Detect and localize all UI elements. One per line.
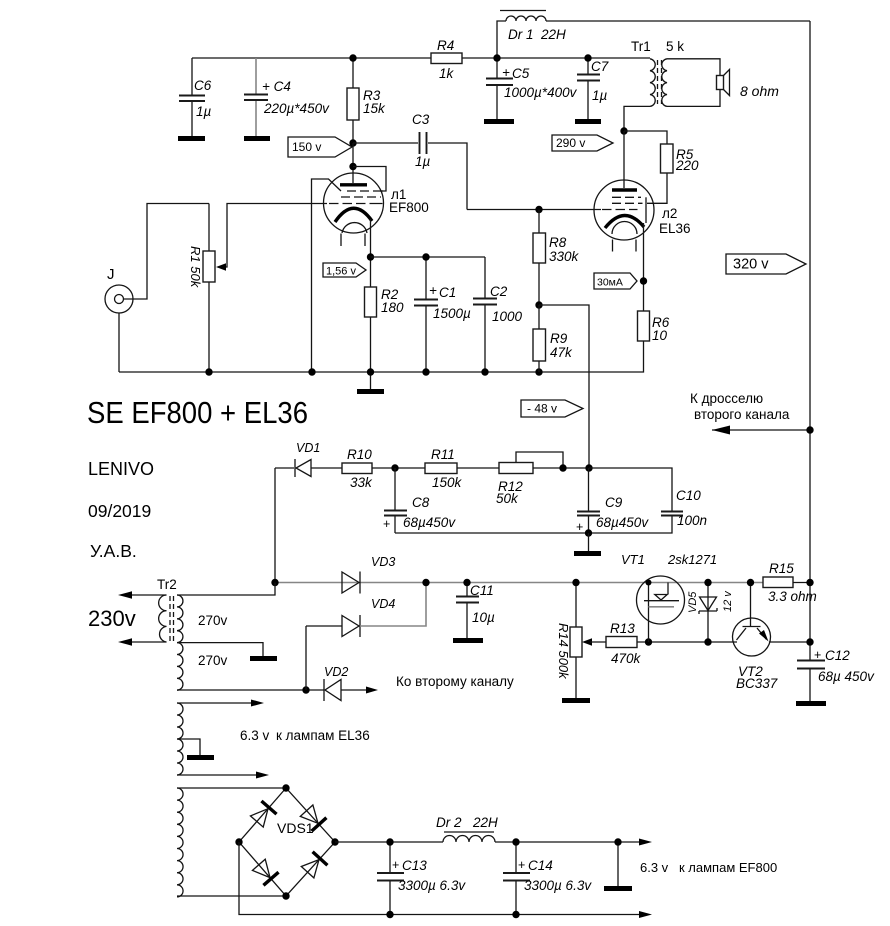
svg-text:VD4: VD4 [371, 597, 395, 611]
transformer Tr2 [118, 577, 324, 690]
svg-text:1µ: 1µ [196, 104, 212, 119]
svg-text:C9: C9 [605, 495, 623, 510]
svg-text:10µ: 10µ [472, 610, 495, 625]
svg-text:второго канала: второго канала [694, 407, 790, 422]
svg-text:C7: C7 [591, 59, 609, 74]
svg-text:Tr1: Tr1 [631, 39, 651, 54]
rail junction nodes [205, 368, 212, 375]
heater pins EF800 [341, 234, 365, 247]
flag 1,56 v [323, 263, 366, 278]
transistor VT2 BC337 [733, 583, 811, 692]
diode VD3 [342, 555, 395, 594]
svg-text:+: + [576, 520, 583, 534]
node VT1 gate [645, 638, 652, 645]
jack J [105, 204, 209, 373]
resistor R10 [342, 447, 425, 490]
screen hook EF800 [353, 167, 386, 192]
node R8 R9 [535, 301, 542, 308]
node cathode EF800 [367, 253, 374, 260]
capacitor C11 [453, 583, 495, 644]
svg-text:SE EF800 + EL36: SE EF800 + EL36 [87, 395, 308, 430]
svg-text:290 v: 290 v [556, 136, 585, 150]
svg-text:BC337: BC337 [736, 676, 778, 691]
svg-text:л2: л2 [662, 206, 677, 221]
suppressor lead EF800 to ground [312, 179, 342, 372]
svg-text:VT1: VT1 [621, 552, 645, 567]
svg-text:220: 220 [675, 158, 699, 173]
svg-text:C10: C10 [676, 488, 701, 503]
svg-text:Ко второму каналу: Ко второму каналу [396, 674, 514, 689]
svg-text:09/2019: 09/2019 [88, 501, 151, 521]
ground 6.3v EF800 [617, 842, 619, 886]
arrow to other channel choke [690, 391, 814, 435]
svg-text:68µ450v: 68µ450v [403, 515, 456, 530]
capacitor C1 [414, 257, 471, 372]
svg-text:1µ: 1µ [415, 154, 431, 169]
svg-text:C14: C14 [528, 858, 553, 873]
node C7 [584, 54, 591, 61]
svg-text:220µ*450v: 220µ*450v [263, 101, 330, 116]
node Tr1 bottom [620, 127, 627, 134]
resistor R13 [590, 621, 737, 666]
svg-text:R9: R9 [550, 331, 568, 346]
svg-text:VDS1: VDS1 [277, 820, 314, 836]
svg-text:К дросселю: К дросселю [690, 391, 763, 406]
grid g2 dashes EF800 [341, 196, 381, 198]
node C5 [493, 54, 500, 61]
capacitor C7 [575, 58, 609, 124]
resistor R2 [365, 287, 405, 372]
svg-text:Tr2: Tr2 [157, 577, 177, 592]
wire anode lead EF800 [352, 143, 354, 183]
capacitor C10 [661, 488, 707, 528]
svg-text:10: 10 [652, 328, 668, 343]
wire raw HT rail y=582.5 [275, 582, 763, 584]
wire DC- 6.3v [239, 842, 639, 915]
potentiometer R14 [556, 583, 592, 704]
svg-text:У.А.В.: У.А.В. [90, 541, 137, 561]
svg-text:C3: C3 [412, 112, 430, 127]
potentiometer R1 [188, 204, 327, 373]
svg-text:1000µ*400v: 1000µ*400v [504, 85, 578, 100]
node VD4 anode riser [302, 686, 309, 693]
svg-text:270v: 270v [198, 653, 228, 668]
zener VD5 [687, 583, 734, 643]
heater pins EL36 [613, 240, 637, 252]
node anode EF800 [349, 163, 356, 170]
capacitor C5 [484, 58, 578, 124]
svg-text:+: + [383, 517, 390, 531]
HV top lead [177, 583, 275, 596]
ground symbol main [370, 372, 372, 389]
heater winding 6.3v EF800 [177, 788, 183, 897]
svg-text:150 v: 150 v [292, 140, 321, 154]
resistor R8 [533, 210, 580, 306]
svg-text:EF800: EF800 [389, 200, 429, 215]
svg-text:VD3: VD3 [371, 555, 395, 569]
grid g1 dashes EF800 [329, 203, 383, 205]
svg-text:150k: 150k [432, 475, 463, 490]
beam plate lead EL36 [645, 197, 647, 223]
svg-text:C11: C11 [470, 583, 494, 598]
potentiometer R12 [496, 452, 589, 506]
svg-text:EL36: EL36 [659, 221, 691, 236]
flag -48 v [521, 400, 583, 417]
svg-text:6.3 v: 6.3 v [640, 860, 669, 875]
resistor R11 [425, 447, 499, 490]
svg-text:LENIVO: LENIVO [88, 459, 154, 479]
node grid EL36 [535, 206, 542, 213]
svg-text:VD2: VD2 [324, 665, 348, 679]
svg-text:68µ 450v: 68µ 450v [818, 669, 875, 684]
wire cathode EL36 [643, 223, 645, 311]
grid dashes EL36 row2 [612, 202, 643, 204]
node C8 top [391, 464, 398, 471]
svg-text:1µ: 1µ [592, 88, 608, 103]
svg-text:50k: 50k [496, 491, 519, 506]
svg-text:47k: 47k [550, 345, 573, 360]
svg-text:R13: R13 [610, 621, 635, 636]
inductor Dr1 [497, 11, 810, 59]
svg-text:R10: R10 [347, 447, 372, 462]
ground C9 [588, 533, 590, 551]
cathode arc EL36 [605, 215, 644, 228]
wire DC+ 6.3v [335, 841, 639, 843]
cathode dome EF800 [342, 223, 367, 233]
svg-text:100n: 100n [677, 513, 707, 528]
svg-text:3300µ 6.3v: 3300µ 6.3v [524, 878, 592, 893]
svg-text:C13: C13 [402, 858, 427, 873]
grid g3 dashes EF800 [347, 190, 383, 192]
wire winding to bridge [177, 788, 286, 896]
svg-text:33k: 33k [350, 475, 373, 490]
svg-text:R11: R11 [431, 447, 455, 462]
svg-text:22H: 22H [540, 27, 566, 42]
node C9 bottom [585, 529, 592, 536]
tube U1 EF800 envelope [324, 173, 384, 233]
svg-text:320 v: 320 v [733, 257, 769, 273]
svg-text:68µ450v: 68µ450v [596, 515, 649, 530]
inductor Dr2 [436, 815, 498, 842]
node 150v [349, 139, 356, 146]
cathode dome EL36 [612, 221, 637, 234]
resistor R15 [763, 561, 817, 604]
svg-text:+: + [518, 858, 525, 872]
svg-text:+ C4: + C4 [262, 79, 291, 94]
svg-text:270v: 270v [198, 613, 228, 628]
svg-text:R4: R4 [437, 38, 454, 53]
svg-text:C8: C8 [412, 495, 430, 510]
svg-text:+: + [429, 283, 437, 298]
wire VD1 riser [274, 468, 276, 583]
node 30mA [640, 277, 647, 284]
resistor R5 [624, 131, 699, 203]
svg-text:1000: 1000 [492, 309, 523, 324]
node VD1 riser on rail [271, 579, 278, 586]
svg-text:180: 180 [381, 300, 404, 315]
svg-text:12 v: 12 v [722, 590, 734, 612]
svg-text:R1 50k: R1 50k [188, 246, 203, 289]
svg-text:5 k: 5 k [666, 39, 684, 54]
cathode arc EF800 [335, 208, 372, 222]
svg-text:1,56 v: 1,56 v [326, 266, 356, 278]
svg-text:C6: C6 [194, 78, 212, 93]
diode VD4 [306, 583, 426, 638]
resistor R3 [347, 58, 386, 143]
capacitor C8 [383, 468, 456, 533]
svg-text:2sk1271: 2sk1271 [667, 552, 717, 567]
svg-text:22H: 22H [472, 815, 498, 830]
svg-text:C5: C5 [512, 66, 530, 81]
svg-text:6.3 v: 6.3 v [240, 728, 270, 743]
ground rail y=372 [119, 371, 643, 373]
svg-text:3300µ 6.3v: 3300µ 6.3v [398, 878, 466, 893]
svg-text:+: + [502, 65, 510, 80]
svg-text:R8: R8 [549, 235, 567, 250]
flag 150 v [288, 137, 352, 157]
speaker 8 ohm [717, 70, 780, 100]
wire grid EL36 [467, 209, 601, 211]
primary winding [159, 595, 167, 642]
svg-text:30мА: 30мА [597, 277, 623, 289]
wire bias tap [539, 305, 589, 468]
diode bridge bottom-right [300, 852, 327, 879]
flag 290 v [552, 135, 613, 151]
node R12 wiper [559, 464, 566, 471]
diode bridge bottom-left [251, 858, 278, 885]
svg-text:- 48 v: - 48 v [527, 402, 557, 416]
node top R3 [349, 54, 356, 61]
wire cathode node to C1 C2 [371, 256, 486, 258]
svg-text:1k: 1k [439, 66, 455, 81]
capacitor C3 [353, 112, 467, 210]
svg-text:C2: C2 [490, 284, 508, 299]
svg-text:230v: 230v [88, 606, 136, 631]
svg-text:1500µ: 1500µ [433, 306, 471, 321]
svg-text:C12: C12 [825, 648, 850, 663]
svg-text:+: + [814, 648, 821, 662]
flag 30мА [594, 273, 637, 289]
node -48v line [585, 464, 592, 471]
HV bottom lead [177, 689, 324, 691]
diode bridge top-left [249, 801, 276, 828]
HV secondary winding [177, 595, 183, 690]
grid g1 dashes EL36 [602, 209, 638, 211]
transistor VT1 (mosfet 2sk1271) [637, 576, 685, 642]
capacitor C12 [796, 648, 875, 706]
svg-text:470k: 470k [611, 651, 642, 666]
wire right rail x=810 [809, 21, 811, 583]
capacitor C4 [244, 58, 330, 141]
wire right rail lower [809, 583, 811, 702]
heater winding 6.3v EL36 [177, 700, 269, 779]
svg-text:330k: 330k [549, 249, 580, 264]
bridge rectifier VDS1 [235, 784, 338, 899]
svg-text:Dr 1: Dr 1 [508, 27, 534, 42]
wire anode EL36 [623, 131, 625, 188]
capacitor C9 [576, 468, 649, 534]
svg-text:к лампам EF800: к лампам EF800 [679, 860, 777, 875]
svg-text:+: + [392, 858, 399, 872]
grid dashes EL36 row1 [612, 196, 641, 198]
anode plate EF800 [340, 183, 367, 186]
resistor R6 [638, 311, 670, 372]
svg-text:VD1: VD1 [296, 441, 320, 455]
svg-text:R14 500k: R14 500k [556, 623, 571, 680]
svg-text:C1: C1 [439, 285, 456, 300]
capacitor C6 [178, 58, 212, 141]
svg-text:8 ohm: 8 ohm [740, 83, 779, 99]
svg-text:15k: 15k [363, 101, 386, 116]
svg-text:VD5: VD5 [687, 591, 699, 613]
core [169, 596, 171, 641]
wire cathode EF800 [370, 219, 372, 287]
tube U2 EL36 envelope [594, 180, 654, 240]
wire top B+ bus y=58 [192, 57, 650, 59]
capacitor C14 [503, 842, 592, 915]
HV center tap to ground [177, 643, 263, 656]
diode bridge top-right [299, 804, 326, 831]
anode plate EL36 [612, 188, 637, 191]
svg-text:J: J [107, 266, 115, 283]
svg-text:Dr 2: Dr 2 [436, 815, 462, 830]
transformer Tr1 [624, 39, 720, 131]
node VD4 riser [422, 579, 429, 586]
svg-text:R15: R15 [769, 561, 794, 576]
resistor R4 [431, 38, 462, 81]
resistor R9 [533, 305, 573, 372]
diode VD1 [275, 441, 342, 477]
wire C8 C9 C10 bottoms [395, 516, 672, 533]
capacitor C13 [377, 842, 466, 915]
flag 320 v [726, 254, 806, 274]
capacitor C2 [473, 257, 523, 372]
wire to C10 [589, 468, 672, 511]
svg-text:к лампам EL36: к лампам EL36 [276, 728, 370, 743]
diode VD2 [324, 665, 378, 701]
